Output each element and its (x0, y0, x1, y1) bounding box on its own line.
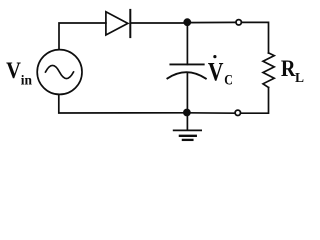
terminal bottom (open circle) (235, 110, 240, 115)
svg-text:V: V (6, 58, 21, 83)
svg-text:L: L (295, 70, 304, 85)
wire: diode cathode to node A (130, 22, 187, 24)
AC source Vin: circle (37, 50, 82, 95)
terminal top (open circle) (236, 20, 241, 25)
wire: resistor bottom to bottom terminal (242, 88, 269, 114)
wire: top terminal to resistor top (242, 22, 269, 53)
wire: node A to top terminal (187, 21, 235, 23)
capacitor C: top lead (186, 23, 188, 65)
label Vin (6, 58, 32, 88)
ground: bar 2 (180, 135, 196, 137)
diode D1 (106, 10, 130, 37)
wire: bottom terminal to node B (187, 112, 235, 114)
svg-text:in: in (21, 73, 33, 88)
wire: node B to source bottom (59, 95, 188, 113)
resistor RL (263, 53, 274, 88)
ground: bar 3 (183, 139, 193, 141)
svg-text:V: V (208, 59, 224, 87)
node A junction dot (183, 18, 191, 26)
AC source Vin: sine wave (46, 65, 74, 78)
capacitor C: curved plate (167, 72, 205, 78)
label RL (281, 55, 304, 85)
capacitor C: bottom lead (186, 73, 188, 113)
svg-text:C: C (224, 71, 233, 88)
node B junction dot (183, 109, 191, 117)
ground: stub (186, 113, 188, 130)
ground: bar 1 (174, 129, 201, 131)
wire top-left: source top to diode anode (59, 23, 106, 50)
capacitor C: straight plate (170, 63, 203, 65)
label VC (with dot above) (208, 55, 233, 88)
